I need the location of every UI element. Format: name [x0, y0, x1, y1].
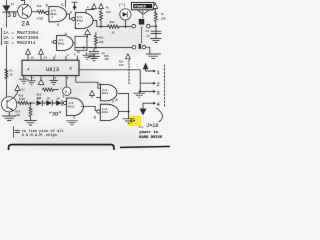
- IC bottom pin ground 3: [50, 76, 58, 85]
- svg-text:R14: R14: [15, 110, 20, 113]
- svg-text:U8)3: U8)3: [46, 67, 59, 73]
- annotation arrow J: [156, 108, 162, 122]
- resistor R16: [43, 88, 59, 91]
- ground below yellow: [123, 119, 134, 123]
- svg-text:A: A: [69, 67, 72, 71]
- svg-text:1K: 1K: [112, 32, 116, 35]
- svg-text:R12: R12: [110, 21, 115, 24]
- transistor Q2 2A: [18, 0, 32, 18]
- svg-text:6: 6: [94, 116, 96, 120]
- pushbutton pole2: [132, 44, 145, 49]
- svg-text:10: 10: [77, 51, 81, 54]
- svg-text:4011: 4011: [68, 105, 75, 108]
- +5 open tri (4): [14, 85, 20, 97]
- +5 arrow gate: [92, 4, 97, 9]
- ground R14: [25, 121, 37, 125]
- IC pin to LED H: [65, 76, 67, 87]
- junction pin3: [139, 90, 141, 92]
- diode 3D: [3, 6, 11, 13]
- arrow down supply: [140, 103, 147, 115]
- svg-text:34: 34: [11, 3, 15, 6]
- svg-text:2: 2: [157, 82, 160, 88]
- svg-text:1: 1: [62, 96, 64, 100]
- wire to pin3: [140, 83, 150, 91]
- connector bracket: [164, 65, 166, 108]
- +5 arrow below U1B: [85, 30, 91, 38]
- wire to pin2: [140, 70, 150, 83]
- pin 2 wire up: [86, 9, 94, 13]
- svg-text:1N: 1N: [56, 97, 60, 100]
- svg-text:4: 4: [112, 100, 114, 104]
- resistor pullup 10K vertical: [100, 11, 103, 27]
- resistor 10K right vertical: [154, 12, 157, 26]
- svg-text:2A: 2A: [21, 21, 30, 28]
- diode D2: [46, 97, 56, 105]
- IC pin to gate C: [76, 76, 98, 89]
- +5 arrow pullup: [99, 4, 104, 11]
- note bracket: [14, 127, 20, 138]
- svg-text:“3D”: “3D”: [49, 112, 62, 118]
- svg-text:3D: 3D: [7, 12, 18, 20]
- wire to pin4: [143, 102, 151, 104]
- wire U2C out down: [119, 93, 129, 118]
- bottom big chip outline: [9, 145, 115, 150]
- bus1 wire right: [119, 26, 132, 28]
- diode D1: [37, 97, 47, 105]
- conn arrow 2: [151, 82, 160, 88]
- svg-text:4: 4: [157, 102, 160, 108]
- svg-text:R11: R11: [99, 37, 104, 40]
- IC U8 box: [22, 60, 79, 75]
- svg-text:470R: 470R: [19, 98, 26, 101]
- wire U2A out: [82, 106, 97, 110]
- svg-text:2: 2: [73, 117, 75, 121]
- LED indicator: [120, 9, 131, 28]
- POWER box: [132, 2, 154, 13]
- svg-text:14: 14: [44, 56, 48, 59]
- svg-text:Pu: Pu: [161, 13, 165, 16]
- svg-text:3: 3: [70, 11, 72, 15]
- svg-text:5: 5: [61, 4, 63, 8]
- capacitor C4: [151, 31, 161, 33]
- svg-text:C4: C4: [146, 30, 150, 33]
- ground right: [146, 54, 160, 58]
- wire right column down: [155, 26, 157, 38]
- switch linkage dashed: [142, 11, 144, 18]
- svg-text:(4): (4): [20, 87, 25, 91]
- box timing: [75, 36, 87, 50]
- resistor R12 inline: [108, 25, 120, 28]
- svg-text:4011: 4011: [76, 19, 83, 22]
- LED H circle: [60, 86, 71, 95]
- svg-text:6: 6: [46, 5, 48, 9]
- ground below U2A: [67, 121, 78, 125]
- node bus1 junction: [100, 26, 102, 28]
- gate U1A nand: [46, 6, 67, 21]
- IC top pin stubs: [54, 56, 77, 60]
- power symbol top: [72, 2, 78, 10]
- pushbutton pole1: [132, 19, 150, 28]
- parts list margin line: [1, 28, 3, 44]
- IC bottom pin ground 2: [28, 76, 36, 85]
- svg-text:4: 4: [57, 24, 59, 28]
- wire pole2 right to ground: [146, 47, 150, 54]
- svg-text:R13: R13: [37, 5, 42, 8]
- wire Q2 collector: [32, 11, 37, 13]
- svg-text:4011: 4011: [58, 42, 65, 45]
- svg-text:1N: 1N: [37, 97, 41, 100]
- svg-text:10K: 10K: [119, 64, 124, 67]
- svg-text:J=18: J=18: [146, 123, 158, 129]
- svg-text:1: 1: [157, 70, 160, 76]
- svg-text:4 D.R.A.M. chips: 4 D.R.A.M. chips: [22, 133, 57, 138]
- IC bottom pin 7 ground: [20, 76, 28, 84]
- wire U1 out: [66, 14, 72, 19]
- ground top right: [83, 53, 92, 60]
- conn pin1 +5 arrow filled: [143, 63, 151, 71]
- svg-text:1N: 1N: [47, 97, 51, 100]
- wire pole1 right: [150, 25, 156, 27]
- gate U2C nand: [97, 84, 117, 101]
- dashed rail: [128, 60, 130, 84]
- resistor R14 vertical: [29, 103, 32, 120]
- conn arrow 4: [151, 102, 160, 108]
- pin 5 wire from top: [64, 0, 66, 7]
- svg-text:10K: 10K: [104, 58, 109, 61]
- svg-text:Pu: Pu: [10, 70, 14, 73]
- svg-text:4011: 4011: [102, 92, 109, 95]
- +5 open triangle mid: [126, 54, 131, 59]
- +5 tri above U2A: [90, 91, 95, 98]
- resistor R11 vertical: [94, 33, 97, 48]
- svg-text:470R: 470R: [37, 17, 44, 20]
- ground pin3: [134, 91, 145, 97]
- +5 arrow right: [153, 3, 158, 12]
- svg-text:100: 100: [15, 114, 20, 117]
- gate U2A nand: [63, 98, 83, 116]
- svg-text:POWER: POWER: [134, 6, 146, 10]
- capacitor C1 to ground: [89, 48, 100, 61]
- IC right bus wire: [79, 69, 140, 71]
- conn arrow 1: [151, 70, 160, 76]
- resistor R10: [18, 101, 34, 104]
- yellow highlight: [128, 116, 141, 126]
- node R14: [30, 102, 32, 104]
- svg-text:to like pins of all: to like pins of all: [22, 129, 65, 134]
- svg-text:(*): (*): [119, 3, 125, 8]
- svg-text:11: 11: [64, 33, 68, 36]
- svg-text:6+: 6+: [130, 120, 136, 124]
- svg-text:3: 3: [157, 90, 160, 96]
- svg-text:4011: 4011: [50, 13, 57, 16]
- power arrowhead: [73, 5, 77, 8]
- gate U1B nand: [72, 12, 93, 28]
- ground Q1: [3, 112, 16, 121]
- gate U1C nand: [52, 35, 73, 50]
- svg-text:4011: 4011: [101, 111, 108, 114]
- svg-text:16: 16: [31, 56, 35, 59]
- svg-text:3D = MN82914: 3D = MN82914: [3, 40, 36, 46]
- svg-text:10K: 10K: [106, 11, 111, 14]
- diode D3: [56, 97, 63, 105]
- svg-text:HARD DRIVE: HARD DRIVE: [139, 136, 163, 140]
- transistor Q1: [2, 97, 17, 112]
- wire base Q2: [7, 11, 18, 13]
- junction: [128, 111, 130, 113]
- svg-text:power to: power to: [139, 131, 158, 135]
- bus2 wire: [76, 47, 133, 49]
- svg-text:1K: 1K: [10, 74, 14, 77]
- conn arrow 3: [151, 90, 160, 96]
- svg-text:8: 8: [115, 99, 117, 103]
- wire left vertical rail: [6, 0, 8, 97]
- node bus2 junctions: [95, 47, 97, 49]
- resistor R13: [37, 10, 46, 13]
- svg-text:M/s: M/s: [139, 125, 144, 129]
- IC top power tri 2: [39, 49, 48, 60]
- resistor left rail vertical: [5, 69, 8, 78]
- wire Q1 collector row: [17, 102, 18, 104]
- IC bottom power tri: [38, 76, 44, 85]
- svg-text:+5: +5: [92, 57, 96, 60]
- svg-text:Pu: Pu: [106, 6, 110, 9]
- svg-text:.1µ: .1µ: [145, 34, 150, 37]
- svg-text:15K: 15K: [99, 41, 104, 44]
- gate U2B nand: [97, 104, 119, 120]
- svg-text:10K: 10K: [161, 18, 166, 21]
- wire U1C out: [73, 42, 75, 44]
- IC top power tri 1: [26, 49, 35, 60]
- switch linkage dashed 2: [141, 27, 143, 44]
- wire U1B out: [93, 21, 97, 27]
- bottom right line: [120, 146, 170, 147]
- bus1 wire: [97, 26, 108, 28]
- wire U2B out: [119, 111, 129, 113]
- svg-text:H: H: [65, 91, 67, 95]
